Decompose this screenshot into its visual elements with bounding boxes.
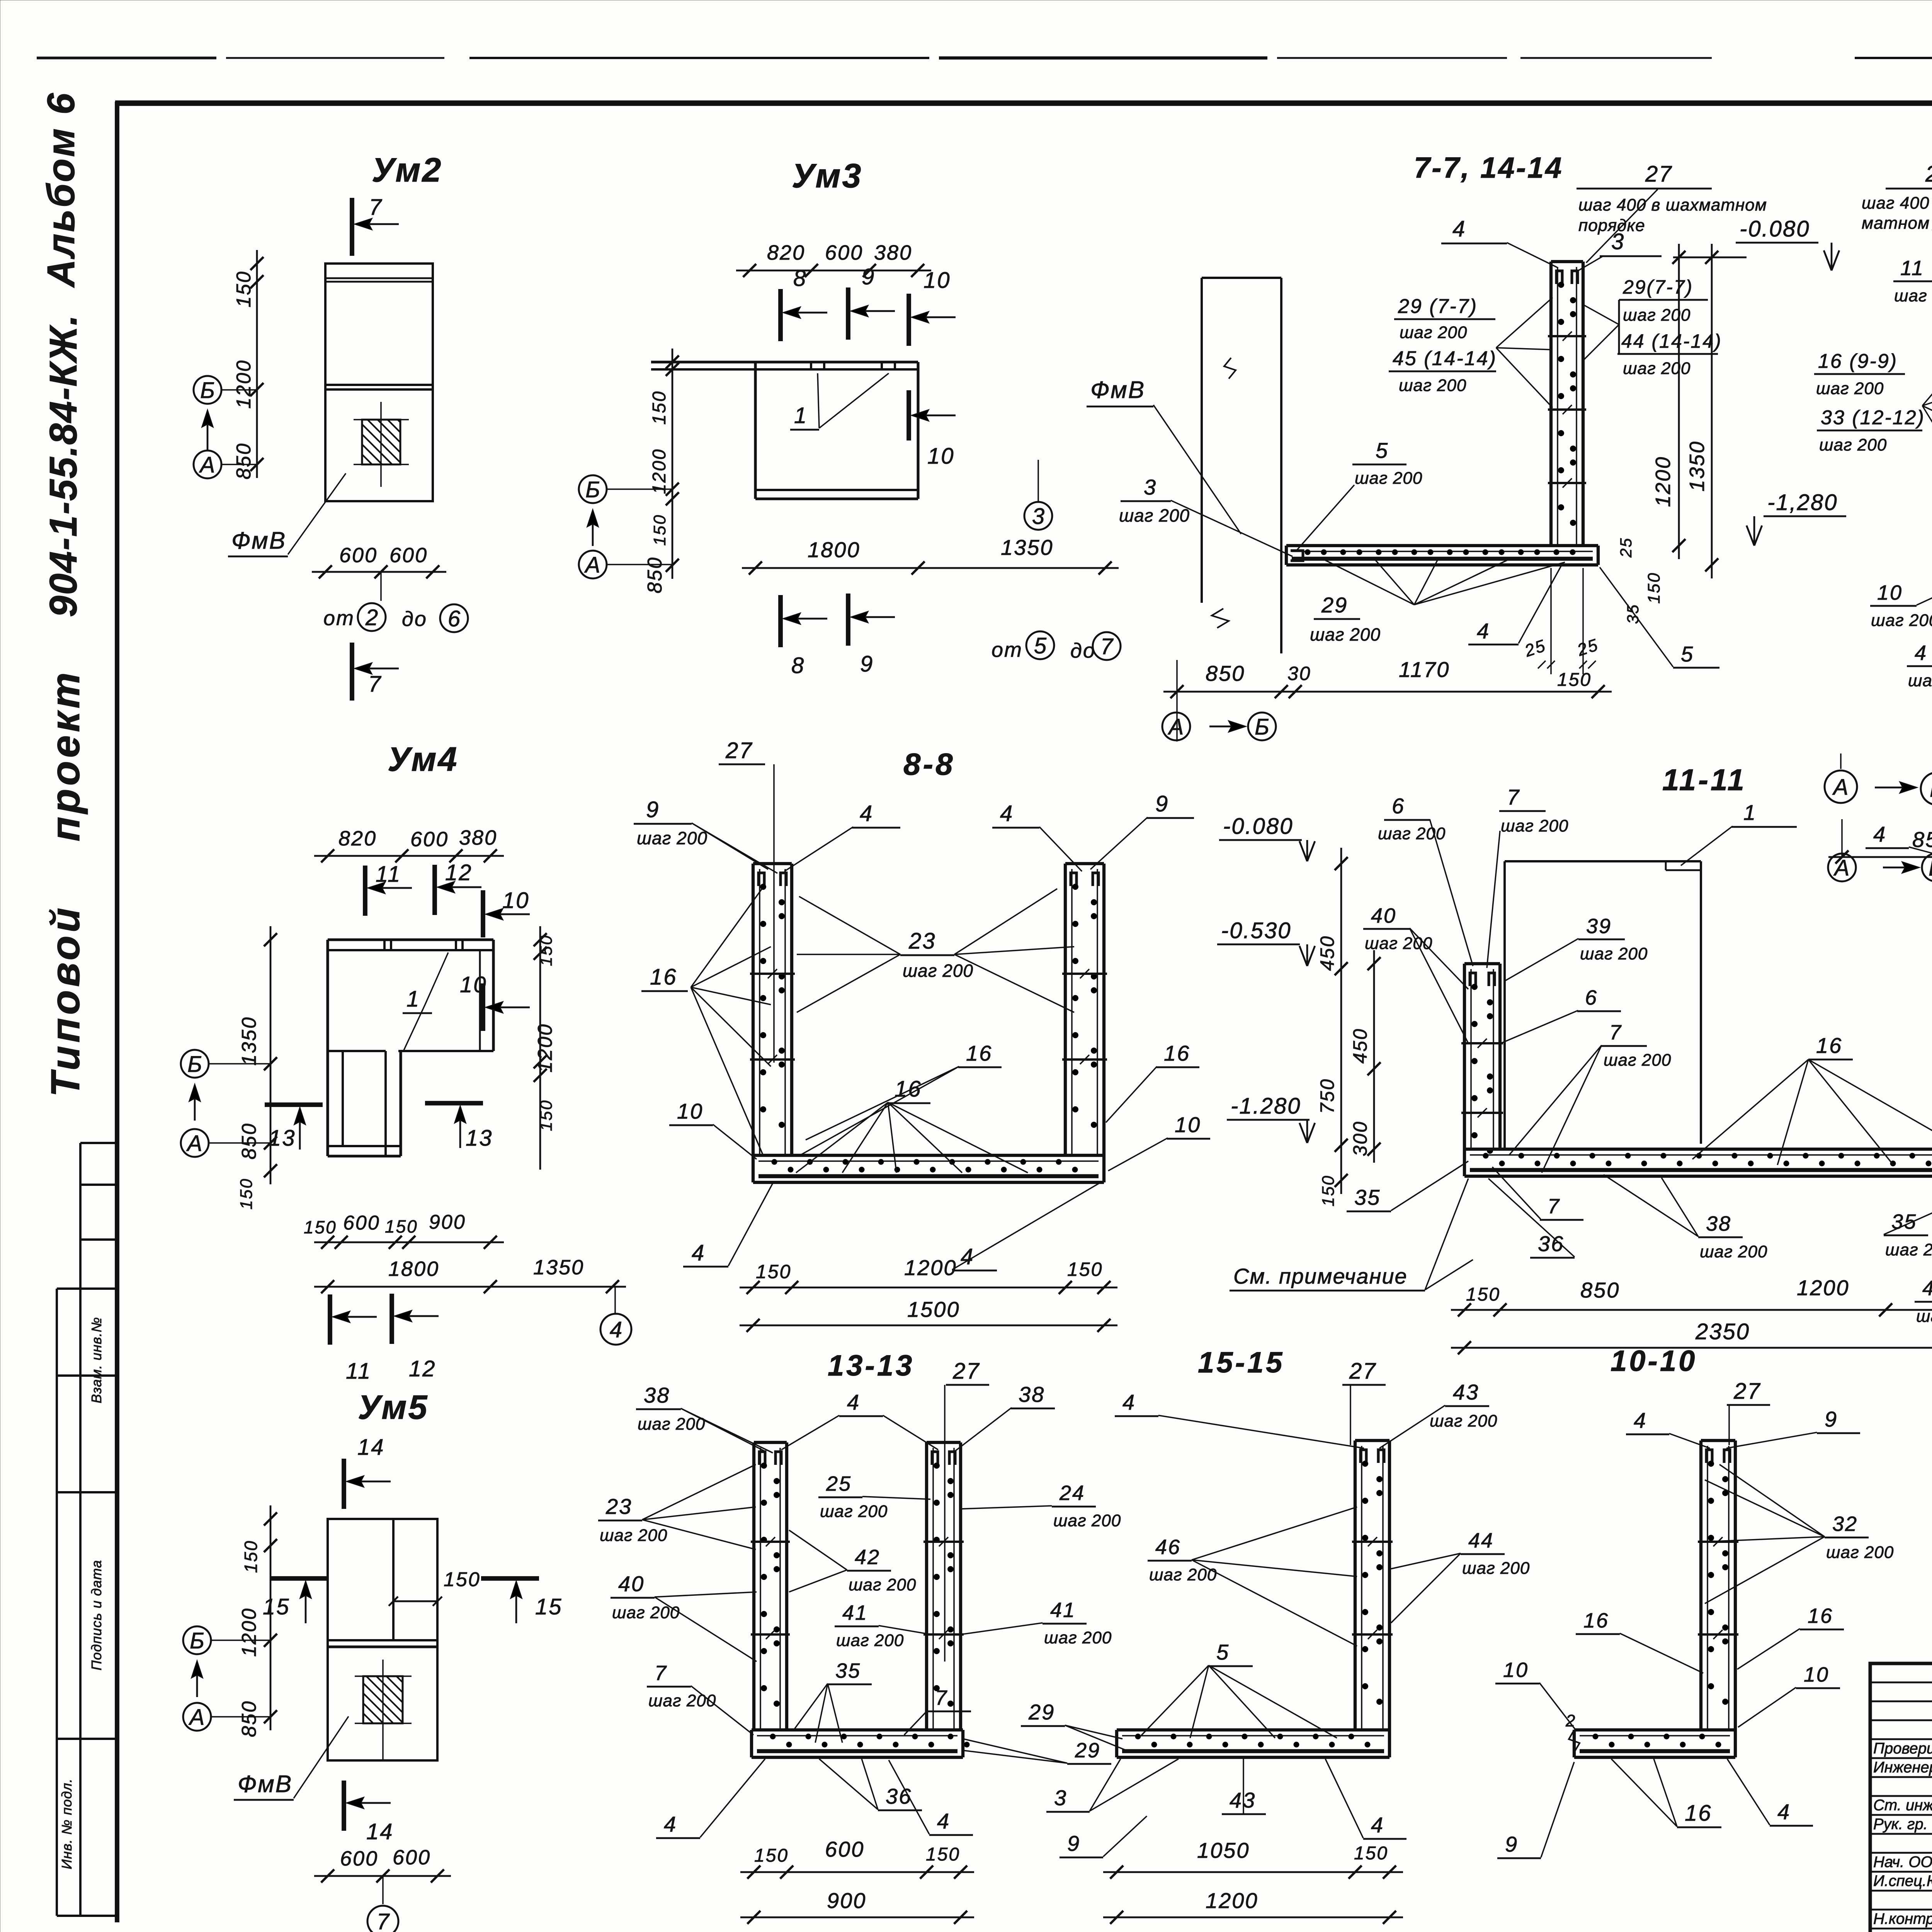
- svg-text:1500: 1500: [907, 1297, 960, 1321]
- svg-text:850: 850: [238, 1122, 260, 1160]
- svg-text:40: 40: [618, 1571, 645, 1596]
- svg-text:-0.530: -0.530: [1221, 918, 1291, 943]
- Um4 section flags 13 13: [265, 1102, 323, 1107]
- svg-text:1200: 1200: [233, 359, 255, 409]
- svg-text:от: от: [323, 607, 355, 630]
- svg-text:шаг 200: шаг 200: [1894, 286, 1932, 305]
- svg-text:16: 16: [1808, 1604, 1833, 1628]
- svg-text:45 (14-14): 45 (14-14): [1393, 347, 1497, 370]
- svg-text:150: 150: [241, 1540, 261, 1573]
- svg-text:3: 3: [1144, 475, 1157, 499]
- svg-text:А: А: [1833, 855, 1850, 881]
- left strip verticals: [56, 1289, 58, 1916]
- svg-text:23: 23: [605, 1494, 632, 1519]
- svg-text:15: 15: [535, 1594, 563, 1619]
- svg-text:30: 30: [1287, 663, 1311, 684]
- svg-text:9: 9: [646, 797, 660, 822]
- svg-text:10: 10: [927, 444, 955, 469]
- svg-text:1200: 1200: [1797, 1276, 1850, 1300]
- svg-text:шаг 200: шаг 200: [1604, 1051, 1671, 1070]
- 7-7 axis circles А Б: [1162, 713, 1190, 740]
- svg-text:Альбом 6: Альбом 6: [39, 92, 83, 288]
- svg-text:шаг 200: шаг 200: [1623, 306, 1690, 325]
- svg-text:9: 9: [860, 651, 874, 677]
- svg-text:600: 600: [825, 241, 863, 264]
- svg-text:150: 150: [304, 1217, 337, 1237]
- svg-text:39: 39: [1586, 915, 1612, 938]
- svg-text:9: 9: [862, 264, 875, 289]
- svg-text:4: 4: [692, 1240, 705, 1265]
- svg-text:27: 27: [952, 1359, 980, 1384]
- svg-text:150: 150: [650, 514, 669, 546]
- svg-text:4: 4: [860, 801, 873, 826]
- svg-text:150: 150: [537, 1099, 556, 1131]
- svg-text:9: 9: [1155, 791, 1169, 816]
- svg-text:2: 2: [1565, 1711, 1576, 1730]
- svg-text:16: 16: [895, 1077, 922, 1102]
- svg-text:1800: 1800: [808, 537, 861, 562]
- svg-text:44: 44: [1468, 1529, 1494, 1552]
- svg-text:16: 16: [1583, 1609, 1609, 1632]
- svg-text:4: 4: [961, 1244, 974, 1269]
- svg-text:16: 16: [1685, 1801, 1712, 1826]
- svg-text:10: 10: [1503, 1658, 1529, 1682]
- svg-text:шаг 200: шаг 200: [1700, 1242, 1767, 1261]
- svg-text:1200: 1200: [904, 1255, 957, 1280]
- 13-13 bottom dims 150 600 150 900: [740, 1871, 974, 1873]
- svg-text:шаг 200: шаг 200: [836, 1631, 904, 1650]
- Um3 right flag 10: [906, 390, 911, 440]
- svg-text:до: до: [1070, 639, 1096, 662]
- svg-text:27: 27: [1733, 1379, 1761, 1404]
- svg-text:шаг 200: шаг 200: [1908, 671, 1932, 690]
- svg-text:16: 16: [1816, 1033, 1842, 1058]
- svg-text:шаг 400 в шах-: шаг 400 в шах-: [1862, 194, 1932, 213]
- svg-text:шаг 200: шаг 200: [637, 828, 707, 848]
- Um4 plan outline: [328, 938, 493, 941]
- svg-text:41: 41: [842, 1601, 868, 1624]
- svg-text:Ум4: Ум4: [388, 740, 458, 778]
- Um2 plan outline: [325, 264, 433, 501]
- svg-text:ФмВ: ФмВ: [1090, 377, 1145, 403]
- svg-text:33 (12-12): 33 (12-12): [1821, 406, 1925, 429]
- svg-text:40: 40: [1371, 904, 1396, 927]
- svg-text:150: 150: [1354, 1843, 1388, 1864]
- 7-7 reinforced wall: [1549, 262, 1553, 546]
- svg-text:15-15: 15-15: [1198, 1346, 1284, 1379]
- 13-13 right wall: [925, 1442, 928, 1730]
- svg-text:13-13: 13-13: [828, 1349, 914, 1382]
- Um3 left dimension chain: [672, 349, 673, 579]
- svg-text:15: 15: [263, 1594, 290, 1619]
- svg-text:-0.080: -0.080: [1740, 216, 1810, 241]
- svg-text:Б: Б: [200, 378, 215, 403]
- svg-text:шаг 200: шаг 200: [1053, 1511, 1121, 1530]
- sheet frame: [115, 102, 119, 1922]
- svg-text:шаг 200: шаг 200: [1819, 435, 1887, 454]
- svg-text:25: 25: [1617, 537, 1635, 558]
- svg-text:А: А: [584, 553, 600, 578]
- Um5 anchor hatched square ФмВ: [363, 1676, 403, 1723]
- svg-text:2350: 2350: [1695, 1319, 1750, 1344]
- svg-text:Б: Б: [190, 1628, 204, 1653]
- svg-text:4: 4: [937, 1809, 950, 1833]
- svg-text:9: 9: [1067, 1831, 1080, 1855]
- svg-text:шаг 200: шаг 200: [1400, 323, 1467, 342]
- svg-text:См. примечание: См. примечание: [1233, 1264, 1408, 1288]
- Um2 axis circles Б and А: [194, 376, 221, 404]
- svg-text:шаг 200: шаг 200: [1580, 944, 1648, 963]
- Um5 bottom dimension 600 600: [314, 1875, 451, 1877]
- svg-text:820: 820: [767, 241, 805, 264]
- Um5 axis circle 7: [367, 1906, 398, 1932]
- svg-text:1170: 1170: [1399, 657, 1450, 682]
- svg-text:4: 4: [610, 1317, 622, 1342]
- svg-text:1: 1: [1743, 800, 1757, 825]
- svg-text:4: 4: [847, 1390, 860, 1414]
- 7-7 bottom dimension 850 30 1170: [1163, 691, 1612, 693]
- svg-text:шаг 200: шаг 200: [903, 961, 973, 981]
- svg-text:6: 6: [1585, 986, 1598, 1009]
- svg-text:10: 10: [502, 888, 530, 913]
- 11-11 axis circles А Б top: [1825, 770, 1857, 803]
- svg-text:8: 8: [793, 266, 807, 291]
- svg-text:Инженер: Инженер: [1873, 1759, 1932, 1776]
- svg-text:Ум5: Ум5: [358, 1388, 429, 1426]
- svg-text:7: 7: [1548, 1195, 1560, 1218]
- Um5 top section flag 14: [342, 1459, 346, 1509]
- 8-8 base slab: [753, 1154, 1104, 1157]
- svg-text:Типовой: Типовой: [43, 905, 88, 1097]
- svg-text:А: А: [1832, 775, 1849, 800]
- svg-text:5: 5: [1376, 438, 1389, 463]
- 15-15 bottom dims 1050 150 1200: [1103, 1871, 1403, 1873]
- svg-text:-1.280: -1.280: [1231, 1094, 1301, 1119]
- svg-text:150: 150: [926, 1844, 960, 1865]
- svg-text:150: 150: [1466, 1284, 1500, 1305]
- svg-text:150: 150: [1319, 1175, 1338, 1206]
- svg-text:10-10: 10-10: [1611, 1345, 1697, 1378]
- svg-text:3: 3: [1611, 229, 1625, 254]
- svg-text:7: 7: [369, 195, 383, 220]
- svg-text:шаг 200: шаг 200: [638, 1415, 705, 1434]
- svg-text:150: 150: [237, 1178, 256, 1209]
- svg-text:9: 9: [1825, 1407, 1838, 1431]
- svg-text:шаг 200: шаг 200: [648, 1691, 716, 1710]
- svg-text:Инв. № подл.: Инв. № подл.: [59, 1778, 75, 1869]
- svg-text:450: 450: [1349, 1028, 1371, 1063]
- svg-text:Ст. инж.: Ст. инж.: [1873, 1797, 1932, 1814]
- svg-text:380: 380: [874, 241, 912, 264]
- svg-text:шаг 200: шаг 200: [849, 1575, 916, 1594]
- svg-text:4: 4: [1477, 619, 1490, 643]
- svg-text:проект: проект: [43, 669, 88, 841]
- svg-text:12: 12: [445, 860, 473, 885]
- svg-text:4: 4: [1922, 1277, 1932, 1300]
- svg-text:шаг 200: шаг 200: [1399, 376, 1466, 395]
- svg-text:32: 32: [1832, 1512, 1858, 1536]
- svg-text:-0.080: -0.080: [1223, 814, 1293, 839]
- svg-text:600: 600: [410, 828, 449, 851]
- svg-text:шаг 200: шаг 200: [1365, 934, 1432, 953]
- svg-text:шаг 200: шаг 200: [1816, 379, 1884, 398]
- Um3 bottom dimensions 1800 1350: [742, 567, 1119, 569]
- svg-text:шаг 200: шаг 200: [1826, 1543, 1894, 1562]
- svg-text:4: 4: [1873, 822, 1886, 846]
- svg-text:16: 16: [650, 964, 677, 990]
- svg-text:матном порядке: матном порядке: [1862, 214, 1932, 233]
- svg-text:29: 29: [1075, 1739, 1100, 1762]
- svg-text:38: 38: [1019, 1382, 1045, 1406]
- svg-text:1: 1: [794, 403, 808, 428]
- svg-text:шаг 200: шаг 200: [1885, 1240, 1932, 1259]
- svg-text:Ум2: Ум2: [372, 151, 442, 189]
- Um3 plan outline: [651, 361, 918, 363]
- svg-text:10: 10: [923, 268, 951, 293]
- svg-text:1200: 1200: [1651, 456, 1675, 507]
- svg-text:4: 4: [1371, 1813, 1384, 1837]
- svg-text:7: 7: [1609, 1021, 1622, 1044]
- svg-text:ФмВ: ФмВ: [231, 527, 286, 554]
- svg-text:35: 35: [1354, 1185, 1381, 1209]
- 15-15 right wall: [1354, 1440, 1357, 1730]
- svg-text:1350: 1350: [1685, 440, 1709, 492]
- svg-text:150: 150: [1645, 572, 1663, 604]
- Um5 bottom section flag 14: [342, 1781, 346, 1831]
- 10-10 right wall: [1699, 1440, 1702, 1730]
- svg-text:4: 4: [1777, 1799, 1791, 1824]
- Um2 top section flag 7: [350, 198, 354, 256]
- svg-text:150: 150: [233, 270, 255, 308]
- svg-text:850: 850: [1580, 1278, 1620, 1302]
- svg-text:шаг 200: шаг 200: [1310, 624, 1381, 645]
- svg-text:Б: Б: [585, 477, 600, 502]
- Um2 left dimension chain: [256, 250, 258, 478]
- svg-text:16: 16: [966, 1041, 992, 1065]
- svg-text:шаг 200: шаг 200: [1044, 1628, 1112, 1647]
- svg-text:44 (14-14): 44 (14-14): [1621, 330, 1722, 352]
- svg-text:4: 4: [1915, 641, 1927, 665]
- svg-text:27: 27: [1349, 1359, 1377, 1384]
- Um3 axis circle 3 and range от 5 до 7: [1037, 460, 1039, 502]
- Um2 bottom section flag 7: [350, 643, 354, 701]
- svg-text:24: 24: [1059, 1481, 1085, 1505]
- svg-text:150: 150: [537, 934, 556, 966]
- 11-11 base slab wide: [1464, 1148, 1932, 1151]
- Um4 bottom section flags 11 12: [328, 1294, 332, 1345]
- svg-text:11: 11: [346, 1359, 371, 1384]
- Um4 section flags 11 12 10 top: [363, 866, 367, 916]
- svg-text:43: 43: [1230, 1788, 1256, 1812]
- svg-text:шаг 200: шаг 200: [1462, 1559, 1530, 1578]
- svg-text:3: 3: [1054, 1786, 1067, 1810]
- Um3 top dimensions 820 600 380: [736, 270, 931, 272]
- svg-text:900: 900: [429, 1211, 466, 1233]
- svg-text:10: 10: [1175, 1112, 1201, 1137]
- svg-text:29: 29: [1321, 593, 1348, 617]
- svg-text:10: 10: [1804, 1663, 1829, 1686]
- svg-text:Подпись и дата: Подпись и дата: [88, 1560, 104, 1670]
- svg-text:3: 3: [1032, 504, 1044, 529]
- svg-text:820: 820: [338, 827, 377, 850]
- Um5 left dimension chain 150 1200 850: [270, 1505, 272, 1730]
- svg-text:8: 8: [791, 653, 805, 678]
- svg-text:шаг 200: шаг 200: [600, 1526, 667, 1545]
- Um3 section flags 8 9 10 top: [778, 289, 783, 341]
- 11-11 left low wall: [1463, 964, 1466, 1149]
- svg-text:600: 600: [340, 1847, 378, 1870]
- svg-text:Ум3: Ум3: [792, 156, 862, 195]
- svg-text:6: 6: [1392, 794, 1405, 818]
- svg-text:Взам. инв.№: Взам. инв.№: [88, 1317, 104, 1403]
- svg-text:300: 300: [1349, 1121, 1371, 1156]
- svg-text:29: 29: [1028, 1700, 1055, 1724]
- svg-text:1200: 1200: [238, 1607, 260, 1657]
- svg-text:14: 14: [357, 1435, 385, 1460]
- svg-text:шаг 200: шаг 200: [1623, 359, 1690, 378]
- svg-text:27: 27: [725, 738, 753, 763]
- svg-text:750: 750: [1316, 1078, 1338, 1114]
- svg-text:7: 7: [935, 1686, 948, 1709]
- svg-text:23: 23: [908, 929, 936, 954]
- svg-text:5: 5: [1034, 633, 1047, 658]
- 8-8 circled 4 below: [614, 1287, 616, 1313]
- svg-text:шаг 200: шаг 200: [1119, 505, 1190, 526]
- svg-text:7: 7: [655, 1662, 667, 1685]
- svg-text:4: 4: [1122, 1390, 1136, 1414]
- svg-text:5: 5: [1216, 1640, 1230, 1664]
- svg-text:7: 7: [1100, 634, 1114, 659]
- svg-text:43: 43: [1453, 1380, 1479, 1404]
- svg-text:шаг 200: шаг 200: [1501, 816, 1568, 835]
- svg-text:4: 4: [664, 1812, 677, 1836]
- left strip row lines: [80, 1142, 117, 1144]
- svg-text:ФмВ: ФмВ: [238, 1771, 293, 1798]
- svg-text:7: 7: [368, 672, 382, 697]
- svg-text:1: 1: [406, 986, 420, 1012]
- 10-10 base slab with break: [1574, 1728, 1735, 1731]
- 8-8 left wall: [752, 864, 755, 1155]
- svg-text:Н.контр: Н.контр: [1873, 1910, 1932, 1927]
- Um4 top dimensions 820 600 380: [314, 855, 504, 857]
- 13-13 left wall: [752, 1442, 755, 1730]
- svg-text:900: 900: [827, 1888, 866, 1913]
- svg-text:29(7-7): 29(7-7): [1622, 276, 1693, 298]
- svg-text:850: 850: [1912, 827, 1932, 852]
- svg-text:И.спец.Ю: И.спец.Ю: [1873, 1872, 1932, 1889]
- svg-text:4: 4: [1000, 801, 1014, 826]
- svg-text:6: 6: [448, 606, 461, 631]
- svg-text:7: 7: [1507, 785, 1520, 809]
- 7-7 right dim chain 1200 1350: [1678, 244, 1680, 559]
- svg-text:600: 600: [393, 1846, 431, 1869]
- svg-text:1350: 1350: [238, 1016, 260, 1066]
- top margin line: [37, 56, 216, 59]
- svg-text:11-11: 11-11: [1662, 763, 1747, 797]
- svg-text:25: 25: [826, 1472, 852, 1495]
- svg-text:А: А: [1168, 714, 1184, 740]
- svg-text:150: 150: [649, 390, 670, 425]
- svg-text:Проверил: Проверил: [1873, 1740, 1932, 1757]
- 11-11 existing block outline: [1503, 861, 1506, 1149]
- 15-15 base slab: [1117, 1728, 1389, 1731]
- svg-text:150: 150: [756, 1261, 791, 1282]
- svg-text:850: 850: [238, 1700, 260, 1737]
- svg-text:А: А: [186, 1131, 202, 1156]
- Um5 axis circles Б А: [183, 1626, 211, 1654]
- svg-text:450: 450: [1316, 935, 1338, 971]
- svg-text:1050: 1050: [1197, 1838, 1250, 1862]
- svg-text:-1,280: -1,280: [1767, 490, 1838, 515]
- svg-text:42: 42: [855, 1546, 880, 1569]
- svg-text:11: 11: [1900, 257, 1924, 280]
- Um4 axis circles Б А: [181, 1050, 209, 1078]
- svg-text:8-8: 8-8: [903, 747, 955, 781]
- svg-text:1800: 1800: [388, 1257, 439, 1281]
- svg-text:Нач. ООМ: Нач. ООМ: [1873, 1854, 1932, 1871]
- svg-text:380: 380: [459, 826, 497, 849]
- svg-text:2: 2: [365, 605, 378, 630]
- svg-text:27: 27: [1925, 162, 1932, 187]
- svg-text:150: 150: [444, 1568, 481, 1591]
- svg-text:150: 150: [1557, 670, 1592, 690]
- Um5 plan outline: [328, 1519, 437, 1760]
- svg-text:7-7, 14-14: 7-7, 14-14: [1414, 151, 1563, 184]
- svg-text:16 (9-9): 16 (9-9): [1818, 350, 1898, 372]
- svg-text:35: 35: [835, 1659, 861, 1682]
- svg-text:29 (7-7): 29 (7-7): [1398, 295, 1478, 318]
- 7-7 base slab: [1286, 544, 1598, 547]
- svg-text:38: 38: [1706, 1212, 1731, 1235]
- svg-text:1200: 1200: [1206, 1888, 1259, 1913]
- svg-text:850: 850: [233, 442, 255, 480]
- svg-text:1350: 1350: [1001, 535, 1054, 560]
- Um2 bottom dimension 600 600: [312, 571, 446, 573]
- svg-text:Б: Б: [1929, 855, 1932, 881]
- svg-text:шаг 200: шаг 200: [820, 1502, 888, 1521]
- svg-text:27: 27: [1645, 162, 1673, 187]
- svg-text:11: 11: [376, 862, 401, 887]
- shared dim chain 450 300: [1373, 950, 1375, 1163]
- svg-text:9: 9: [1505, 1832, 1518, 1856]
- svg-text:10: 10: [1877, 581, 1903, 604]
- svg-text:А: А: [199, 452, 215, 478]
- svg-text:от: от: [992, 638, 1023, 662]
- svg-text:Б: Б: [1255, 714, 1269, 740]
- stamp outer box: [1870, 1663, 1932, 1932]
- svg-text:1350: 1350: [533, 1256, 584, 1279]
- svg-text:Б: Б: [1930, 777, 1932, 802]
- svg-text:16: 16: [1164, 1041, 1190, 1065]
- svg-text:850: 850: [644, 556, 666, 594]
- svg-text:46: 46: [1155, 1536, 1181, 1559]
- svg-text:12: 12: [409, 1356, 436, 1381]
- Um4 right dimension chain 150 1200 150: [539, 926, 541, 1170]
- svg-text:150: 150: [385, 1216, 418, 1236]
- 8-8 bottom dims 150 1200 150 1500: [740, 1287, 1117, 1289]
- svg-text:850: 850: [1206, 661, 1245, 685]
- Um3 bottom flags 8 9: [778, 595, 783, 647]
- svg-text:А: А: [189, 1705, 205, 1730]
- svg-text:41: 41: [1050, 1599, 1076, 1622]
- 8-8 right wall: [1064, 864, 1067, 1155]
- svg-text:150: 150: [754, 1845, 789, 1866]
- 7-7 existing wall ФмВ outline: [1202, 277, 1281, 279]
- Um4 left dimension chain 1350 850 150: [270, 926, 272, 1184]
- svg-text:4: 4: [1452, 216, 1466, 241]
- svg-text:14: 14: [366, 1819, 394, 1844]
- svg-text:4: 4: [1634, 1408, 1647, 1432]
